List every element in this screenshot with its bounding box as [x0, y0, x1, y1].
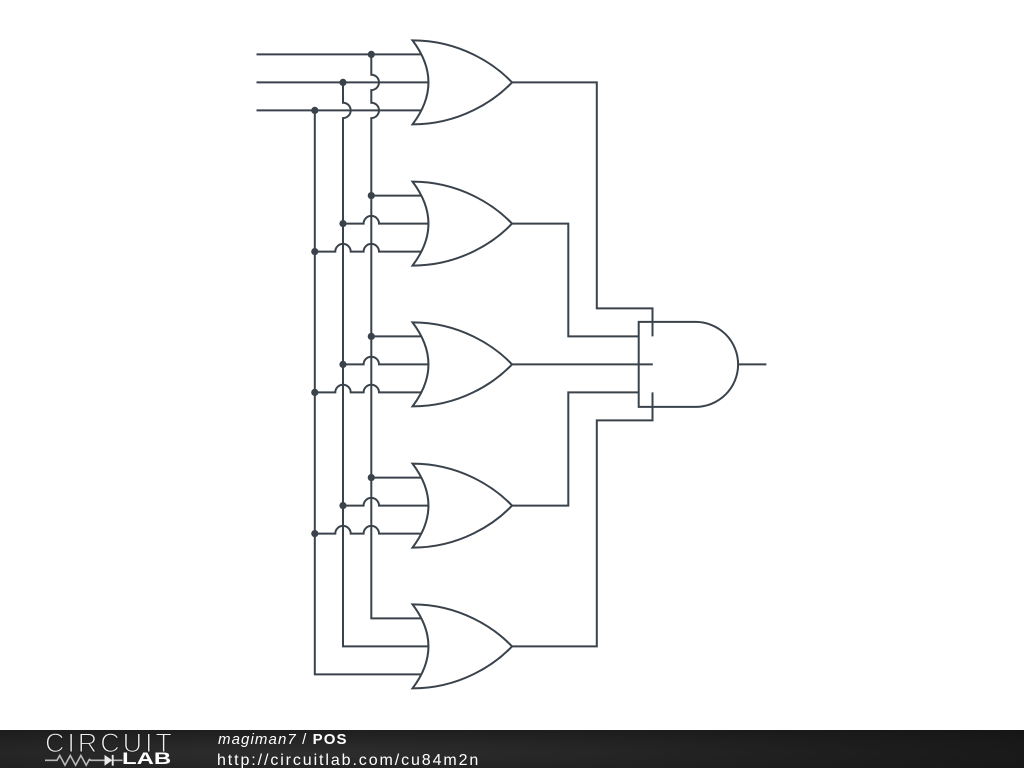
wire bus A to OR2 top input: [371, 195, 430, 197]
junction dot at (343,505.6): [339, 502, 346, 509]
junction dot at (314.8,392.4): [311, 389, 318, 396]
wire bus C to OR2 bottom input (hops over buses B and A): [315, 244, 430, 252]
wire bus B to OR3 middle input (hop over bus A): [343, 357, 430, 365]
wire OR5 output to AND pin5: [512, 392, 653, 646]
attribution text line 1: [218, 731, 348, 748]
junction dot at (371.3,54.4): [368, 51, 375, 58]
junction dot at (314.8,251.6): [311, 248, 318, 255]
wire bus C to OR4 bottom input (hops over buses B and A): [315, 526, 430, 534]
junction dot at (314.8,533.6): [311, 530, 318, 537]
CircuitLab logo word CIRCUIT: [45, 728, 175, 759]
wire input A horizontal: [257, 53, 431, 55]
attribution text line 2: [217, 752, 480, 770]
wire input C horizontal: [257, 109, 431, 111]
wire bus C vertical: [315, 110, 430, 674]
wire bus C to OR3 bottom input (hops over buses B and A): [315, 385, 430, 393]
junction dot at (371.3,477.6): [368, 474, 375, 481]
footer attribution bar: [0, 730, 1024, 769]
or-gate U2 (3-input OR): [413, 182, 513, 266]
or-gate U1 (3-input OR): [413, 40, 513, 124]
wire bus A vertical (hops over B and C): [371, 54, 430, 618]
wire bus A to OR4 top input: [371, 477, 430, 479]
wire OR3 output to AND pin3: [512, 363, 653, 365]
junction dot at (343,82.4): [339, 79, 346, 86]
or-gate U5 (3-input OR): [413, 604, 513, 688]
junction dot at (343,364.4): [339, 361, 346, 368]
CircuitLab logo word LAB: [122, 750, 171, 769]
wire OR4 output to AND pin4: [512, 392, 639, 505]
wire input B horizontal: [257, 81, 431, 83]
junction dot at (314.8,110.4): [311, 107, 318, 114]
junction dot at (371.3,195.6): [368, 192, 375, 199]
junction dot at (343,223.6): [339, 220, 346, 227]
wire bus A to OR3 top input: [371, 335, 430, 337]
wire OR2 output to AND pin2: [512, 224, 639, 337]
wire bus B vertical (hop over C): [343, 82, 430, 646]
wire bus B to OR4 middle input (hop over bus A): [343, 498, 430, 506]
wire bus B to OR2 middle input (hop over bus A): [343, 216, 430, 224]
or-gate U4 (3-input OR): [413, 464, 513, 548]
and-gate U6 (5-input AND) body: [639, 322, 738, 407]
junction dot at (371.3,336.4): [368, 333, 375, 340]
or-gate U3 (3-input OR): [413, 322, 513, 406]
and-gate U6 output wire: [738, 363, 766, 365]
wire OR1 output to AND pin1: [512, 82, 653, 336]
CircuitLab logo wire with resistor and diode: [44, 752, 134, 770]
